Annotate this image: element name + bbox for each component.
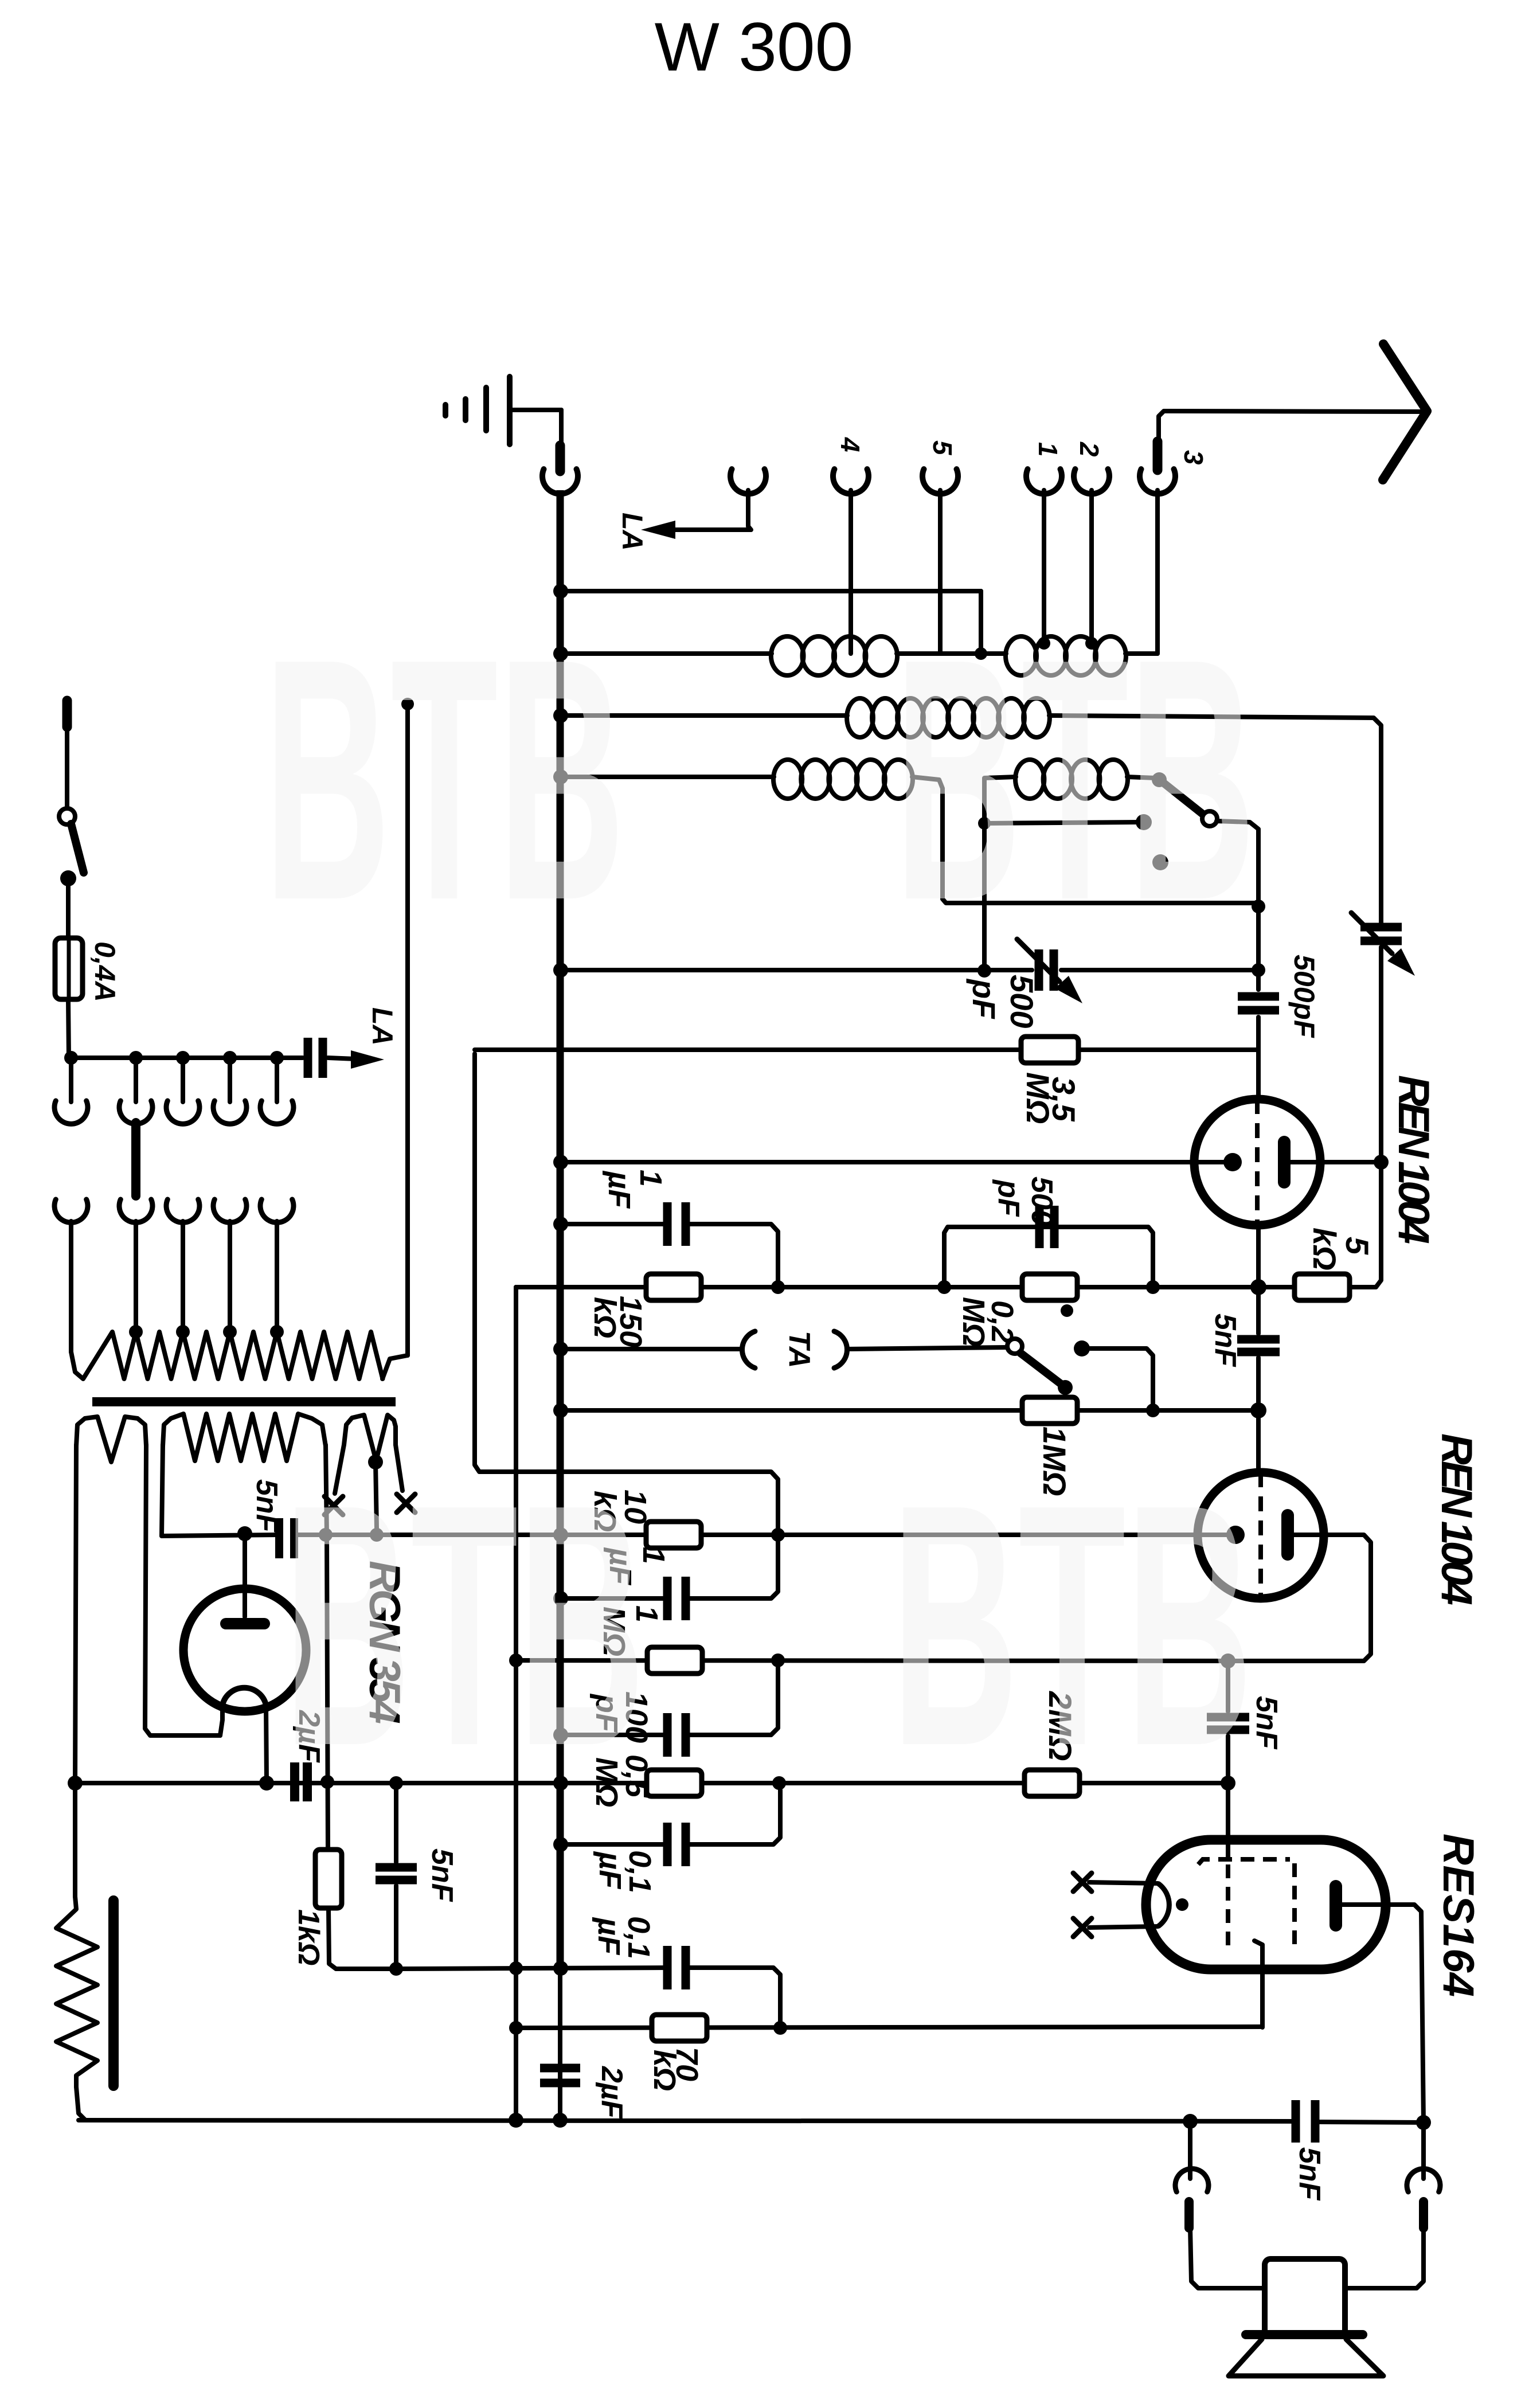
wire y1831 [475, 1047, 1258, 1052]
junction x2195/y1575 [1252, 900, 1265, 913]
tube V1 grid dot [1223, 1153, 1242, 1171]
x mark V3 a [1073, 1873, 1092, 1891]
label 1MOhm (grid V2) [1037, 1426, 1073, 1496]
label MOhm (0.2M) [956, 1297, 991, 1347]
capacitor 5nF (1k par) [376, 1867, 417, 1880]
junction y3110/x1359 [772, 1776, 786, 1790]
svg-text:LA: LA [616, 513, 648, 551]
svg-text:0,1: 0,1 [621, 1916, 656, 1959]
label LA (top) [616, 513, 648, 551]
transformer secondary C (filament) [346, 1415, 396, 1461]
svg-text:4: 4 [835, 437, 865, 452]
wire fuse to selector [68, 999, 69, 1058]
selector socket bottom 2 [119, 1199, 152, 1332]
wire selector rail [69, 1056, 303, 1060]
label 2uF (bottom) [595, 2066, 628, 2119]
tube V2 REN1004 envelope [1198, 1472, 1324, 1598]
label LA (bottom) [366, 1007, 398, 1046]
potentiometer slider bar [108, 1901, 119, 2086]
capacitor 100pF [667, 1713, 686, 1757]
label MOhm (0.5M) [589, 1757, 624, 1807]
wire cap to arrow [328, 1058, 355, 1059]
transformer core [92, 1397, 396, 1406]
junction selector 5 [270, 1051, 284, 1065]
svg-text:MΩ: MΩ [1020, 1072, 1056, 1124]
tube V2 anode lead [1228, 1535, 1371, 1661]
speaker cone [1229, 2339, 1383, 2376]
corner x900 top [516, 1287, 523, 1291]
junction bus/y3110 [553, 1776, 568, 1791]
mains switch pivot [59, 808, 75, 824]
socket cup terminal 1 [1026, 469, 1062, 494]
wire y3026 [561, 1733, 667, 1737]
antenna coil L1 [771, 636, 897, 675]
transformer primary winding [71, 1332, 408, 1379]
junction anode/x2409 [1374, 1155, 1389, 1170]
secondary A right lead [145, 1445, 220, 1735]
switch lever (waveband) [1152, 772, 1203, 814]
switch 2 lever [1020, 1353, 1073, 1395]
wire TA left [561, 1347, 740, 1351]
tube RGN354 envelope [183, 1589, 306, 1711]
capacitor 2uF (psu left) [295, 1762, 307, 1801]
V3 grid cage dashes [1198, 1859, 1295, 1948]
socket cup terminal 5 [922, 469, 958, 494]
wire R4 bend down [912, 777, 1258, 903]
switch contact wire [984, 822, 1140, 823]
junction y2677/x1357 [771, 1528, 785, 1542]
junction x691/y3434 [389, 1962, 403, 1976]
junction bus/y2788 [553, 1591, 568, 1606]
switch contact dot [1136, 814, 1152, 830]
wire x711 (HT feed) [401, 698, 414, 1355]
selector socket bottom 1 [54, 1199, 88, 1352]
label 0,1 (b) [621, 1916, 656, 1959]
title W 300 [655, 9, 854, 85]
label 5nF (1k par) [425, 1848, 459, 1902]
wire y2788 right [687, 1535, 778, 1598]
antenna coil L2 [1006, 636, 1126, 675]
capacitor 5nF (V1/V2) [1237, 1339, 1280, 1352]
selector socket bottom 5 [260, 1199, 294, 1332]
x mark V3 b [1073, 1918, 1092, 1937]
capacitor 0.1uF (b) [667, 1946, 686, 1989]
wire R3 right [1049, 716, 1381, 923]
speaker socket left [1175, 2121, 1265, 2288]
junction bus/y3026 [553, 1727, 568, 1742]
junction y2460/x2011 [1146, 1404, 1160, 1417]
wire y2135 left [561, 1222, 667, 1226]
svg-text:kΩ: kΩ [647, 2050, 682, 2091]
svg-text:5: 5 [928, 440, 957, 456]
svg-text:500pF: 500pF [1288, 955, 1320, 1038]
V3 screen lead [1226, 1783, 1230, 1859]
svg-text:2: 2 [1074, 441, 1104, 457]
junction y2677/x570 [319, 1528, 333, 1542]
svg-text:5nF: 5nF [425, 1848, 459, 1902]
selector socket top 3 [166, 1058, 200, 1124]
selector socket top 5 [260, 1058, 294, 1124]
wire x2195 seg2 [1256, 906, 1261, 970]
TA jack right arc [834, 1331, 847, 1368]
wire TA right [848, 1347, 1008, 1349]
wire y2460 [561, 1408, 1258, 1413]
switch 2 contact dot [1074, 1340, 1090, 1357]
label 1 (1uF b) [636, 1547, 671, 1564]
label 2MOhm [1042, 1691, 1078, 1761]
V3 anode bar [1330, 1886, 1342, 1925]
selector socket top 2 [119, 1058, 152, 1124]
label 5nF (V1/V2) [1209, 1314, 1242, 1367]
junction y3110/x691 [389, 1776, 403, 1790]
wire pivot to corner [1217, 821, 1258, 900]
wire 5nF col bottom [1226, 1736, 1230, 1840]
label pF (trimmer) [966, 978, 1002, 1019]
capacitor 1uF (b) [667, 1577, 686, 1620]
wire y3434 [396, 1968, 667, 1969]
label pF (100p) [589, 1693, 624, 1733]
junction bus/y3434 [553, 1961, 568, 1976]
svg-text:µF: µF [592, 1917, 626, 1956]
label 0,4A [89, 941, 121, 1002]
secondary A left lead [75, 1445, 76, 1783]
junction bus/y1692 [553, 963, 568, 978]
fuse 0.4A [55, 938, 83, 999]
antenna symbol [1383, 344, 1427, 480]
wire x2195 seg7 [1256, 1410, 1261, 1473]
wire bottom rail [79, 2120, 1424, 2122]
wire y2677 left seg [162, 1535, 279, 1536]
junction R2/R1drop [975, 647, 987, 660]
svg-text:kΩ: kΩ [588, 1297, 622, 1338]
label terminal 5 [928, 440, 957, 456]
junction y3110/x2142 [1221, 1776, 1235, 1791]
variable capacitor arrow [1351, 913, 1415, 976]
label MOhm (1Mb) [597, 1606, 631, 1656]
svg-text:5nF: 5nF [1293, 2147, 1326, 2201]
svg-text:BTB: BTB [284, 1433, 645, 1817]
x mark C right [397, 1494, 415, 1512]
svg-text:W 300: W 300 [655, 9, 854, 85]
capacitor 5nF (psu) [279, 1518, 294, 1558]
svg-text:kΩ: kΩ [1307, 1228, 1343, 1271]
speaker flange bar [1246, 2330, 1363, 2339]
wire x691 lower [394, 1886, 398, 1969]
junction bus/R3 [553, 708, 568, 723]
label REN1004 (V1) [1389, 1075, 1438, 1244]
junction bottom/speakerR [1416, 2115, 1431, 2130]
label uF (1uF a) [602, 1170, 636, 1209]
wire terminal 1 down [1038, 490, 1050, 650]
resistor 1MOhm (grid V2) [1022, 1397, 1077, 1424]
label kOhm (70k) [647, 2050, 682, 2091]
resistor 1kOhm [315, 1850, 342, 1908]
V3 screen dashes [1226, 1864, 1230, 1950]
TA jack left arc [742, 1331, 755, 1368]
wire x2409 to 5k [1352, 1162, 1381, 1287]
svg-text:5nF: 5nF [1250, 1696, 1283, 1750]
label RGN354 [360, 1561, 409, 1724]
label kOhm (10k) [588, 1491, 622, 1532]
tube V2 grid dot [1226, 1526, 1245, 1544]
mains switch lever [71, 824, 84, 873]
V3 filament lead 2 [1089, 1926, 1158, 1928]
svg-text:500: 500 [1004, 975, 1040, 1028]
label 70 [670, 2047, 704, 2081]
junction y3537/x1361 [773, 2021, 787, 2035]
wire coil L5 to lever [1127, 777, 1156, 778]
resistor 0.2MOhm [1022, 1274, 1077, 1300]
wire y2677 [296, 1533, 1231, 1537]
stray dot [1061, 1304, 1073, 1317]
label RES164 [1434, 1834, 1483, 1997]
wire R2 right [1125, 651, 1158, 656]
switch lower contact dot [1152, 854, 1168, 870]
trimmer capacitor 500pF [1039, 949, 1054, 991]
junction y2897/x2142 [1221, 1653, 1235, 1668]
bus top lead [557, 490, 564, 591]
junction x2195/y1692 [1252, 963, 1265, 977]
mains wire to switch [65, 727, 69, 808]
wire x900 [514, 1287, 518, 2120]
RGN354 anode bar [226, 1618, 264, 1629]
wire y2896 [516, 1660, 1228, 1661]
svg-text:RES164: RES164 [1434, 1834, 1483, 1997]
label terminal 2 [1074, 441, 1104, 457]
wire y3434 right [687, 1968, 780, 2021]
label 500pF (grid) [1288, 955, 1320, 1038]
svg-text:1kΩ: 1kΩ [292, 1909, 325, 1965]
tube V1 cathode dashes [1255, 1099, 1260, 1225]
svg-text:REN 1004: REN 1004 [1389, 1075, 1438, 1244]
wire grid tube1 [561, 1160, 1227, 1164]
socket cup terminal LA [730, 469, 766, 494]
label 1 (1Mb) [629, 1605, 664, 1623]
resistor 2MOhm [1025, 1770, 1080, 1796]
wire R2 left [561, 651, 772, 656]
junction selector 4 [223, 1051, 237, 1065]
wire LA socket down [674, 490, 751, 530]
tube V2 cathode dashes [1258, 1472, 1263, 1598]
speaker socket right [1345, 2122, 1440, 2288]
wire R4 left [561, 775, 774, 779]
resistor 150kOhm [646, 1274, 701, 1300]
junction y2896/x1357 [771, 1653, 785, 1667]
tube V3 RES164 envelope [1146, 1840, 1386, 1969]
label pF (par) [992, 1179, 1025, 1217]
svg-text:µF: µF [593, 1851, 627, 1890]
wire terminal 2 down [1085, 490, 1098, 650]
capacitor 1uF (a) [667, 1202, 686, 1246]
coil L5 [1015, 760, 1128, 799]
junction bus/y2460 [553, 1403, 568, 1418]
label 5nF (speaker) [1293, 2147, 1326, 2201]
wire R3 left [561, 713, 847, 718]
mains plug pin [62, 701, 72, 727]
svg-text:BTB: BTB [264, 588, 625, 972]
tube V2 anode bar [1281, 1515, 1294, 1554]
label 100 [619, 1691, 654, 1743]
label terminal 3 [1179, 450, 1209, 465]
label uF (0.1b) [592, 1917, 626, 1956]
junction bus/y2135 [553, 1217, 568, 1232]
wire y3217 right [687, 1790, 780, 1844]
junction primary tap [176, 1325, 190, 1339]
wire y2245 [516, 1285, 1296, 1289]
junction y1692/x1717 [977, 964, 991, 978]
wire poti to bottom rail [76, 2087, 85, 2120]
socket cup (chassis input) [542, 469, 578, 494]
tube V1 anode lead [1291, 1160, 1381, 1164]
junction y2245/x1357 [771, 1280, 785, 1294]
wire y2135 right [687, 1224, 778, 1287]
junction primary tap [270, 1325, 284, 1339]
junction y3110/RGN fil [259, 1776, 274, 1791]
x mark C left [324, 1496, 343, 1515]
label 0,5 [619, 1754, 654, 1798]
potentiometer winding [56, 1897, 97, 2087]
wire y3026 right [687, 1667, 778, 1735]
capacitor 5nF (speaker) [1296, 2100, 1315, 2143]
resistor 10kOhm [646, 1522, 701, 1548]
resistor 70kOhm [652, 2015, 707, 2041]
svg-text:0,1: 0,1 [623, 1850, 657, 1893]
label 0,1 (a) [623, 1850, 657, 1893]
mains switch contact [60, 870, 76, 886]
svg-text:5nF: 5nF [250, 1479, 283, 1533]
wire y3110 [75, 1781, 1228, 1785]
wire x691 [394, 1783, 398, 1862]
junction bus/y2027 [553, 1155, 568, 1170]
secondary C right lead [396, 1445, 402, 1491]
label 500 (par) [1025, 1176, 1058, 1226]
V3 filament arc [1158, 1883, 1188, 1926]
wire R2 mid [897, 651, 1006, 656]
resistor 3.5MOhm [1021, 1037, 1078, 1063]
500pF parallel loop [944, 1227, 1153, 1287]
label 5nF (V2 out) [1250, 1696, 1283, 1750]
arrow to LA (bottom) [351, 1050, 384, 1069]
junction y2460/x2195 [1250, 1402, 1266, 1418]
selector socket top 1 [54, 1058, 88, 1124]
secondary B left lead [162, 1445, 163, 1536]
wire x2195 seg6 [1256, 1358, 1261, 1410]
wire y1692 [561, 968, 1258, 972]
label 1kOhm [292, 1909, 325, 1965]
svg-text:BTB: BTB [891, 1433, 1253, 1817]
voltage selector plug [131, 1123, 140, 1196]
wire x2195 seg5 [1256, 1287, 1261, 1334]
junction bus/y2677 [553, 1527, 568, 1542]
wire x131 lower [73, 1783, 77, 1897]
junction bus/y2353 [553, 1342, 568, 1357]
label REN1004 (V2) [1432, 1433, 1481, 1605]
junction y2245/x2195 [1250, 1279, 1266, 1295]
resistor 1MOhm (b) [647, 1647, 702, 1674]
junction selector 1 [64, 1051, 78, 1065]
label 500 (trimmer) [1004, 975, 1040, 1028]
label 2uF (psu left) [292, 1710, 326, 1763]
label uF (0.1a) [593, 1851, 627, 1890]
label TA [783, 1331, 816, 1368]
junction x900/y3434 [509, 1961, 523, 1975]
wire L5 feed [984, 777, 1016, 971]
junction L5feed/contact [978, 817, 991, 830]
svg-text:pF: pF [992, 1179, 1025, 1217]
watermark BTB overlay [264, 588, 1256, 1817]
wire antenna to terminal 3 [1159, 411, 1422, 441]
label terminal 1 [1033, 442, 1063, 457]
label 10 [618, 1490, 652, 1524]
wire tube V1 bottom [1256, 1225, 1261, 1287]
svg-text:LA: LA [366, 1007, 398, 1046]
wire switch to fuse [66, 878, 71, 940]
capacitor 2uF (bottom) [540, 2068, 580, 2083]
svg-text:1: 1 [634, 1170, 668, 1187]
V3 filament lead 1 [1089, 1882, 1158, 1883]
coil L4 [773, 760, 913, 799]
resistor 0.5MOhm [647, 1770, 702, 1796]
capacitor 500pF (parallel) [1039, 1206, 1054, 1248]
svg-text:BTB: BTB [894, 588, 1256, 972]
switch 2 pivot [1007, 1339, 1022, 1354]
junction y3110/x131 [68, 1776, 83, 1791]
junction x900/bottom [509, 2113, 523, 2128]
label MOhm (3.5M) [1020, 1072, 1056, 1124]
resistor 5kOhm [1295, 1274, 1350, 1300]
label 0,2 [985, 1300, 1019, 1343]
svg-text:TA: TA [783, 1331, 816, 1368]
wire y3537 [516, 2027, 1262, 2028]
svg-text:3: 3 [1179, 450, 1209, 465]
svg-text:5: 5 [1339, 1237, 1375, 1255]
svg-text:pF: pF [966, 978, 1002, 1019]
V3 anode lead [1342, 1905, 1424, 2122]
label kOhm (5k) [1307, 1228, 1343, 1271]
wire terminal 4 down [848, 490, 853, 654]
selector socket bottom 3 [166, 1199, 200, 1332]
junction bus/R1 [553, 584, 568, 599]
plug pin (ground lead) [556, 445, 565, 471]
wire x2195 seg4 [1256, 1017, 1261, 1101]
svg-text:REN 1004: REN 1004 [1432, 1433, 1481, 1605]
transformer secondary B [163, 1414, 326, 1461]
wire R1 corner down [979, 591, 983, 654]
wire terminal 5 down [938, 490, 943, 654]
variable capacitor (tuning) [1360, 927, 1402, 1158]
junction selector 2 [129, 1051, 143, 1065]
label 1 (1uF a) [634, 1170, 668, 1187]
svg-text:0,4A: 0,4A [89, 941, 121, 1002]
junction primary tap [223, 1325, 237, 1339]
tube V1 anode bar [1278, 1142, 1291, 1182]
wire y2788 [561, 1596, 667, 1601]
wire 1k col bottom [329, 1908, 396, 1969]
label 5nF (psu) [250, 1479, 283, 1533]
wire x828 vertical [475, 1054, 778, 1535]
label 3,5 [1046, 1077, 1082, 1122]
label 5 (5k) [1339, 1237, 1375, 1255]
secondary C centre tap [368, 1455, 383, 1535]
junction selector 3 [176, 1051, 190, 1065]
junction y2245/500pF loop [937, 1280, 951, 1294]
svg-text:µF: µF [602, 1170, 636, 1209]
speaker transformer box [1265, 2259, 1345, 2336]
junction bus/bottom [553, 2113, 568, 2128]
RGN354 top lead [243, 1534, 247, 1617]
wire y3217 [561, 1842, 667, 1847]
junction y2677/RGN top [237, 1526, 252, 1541]
